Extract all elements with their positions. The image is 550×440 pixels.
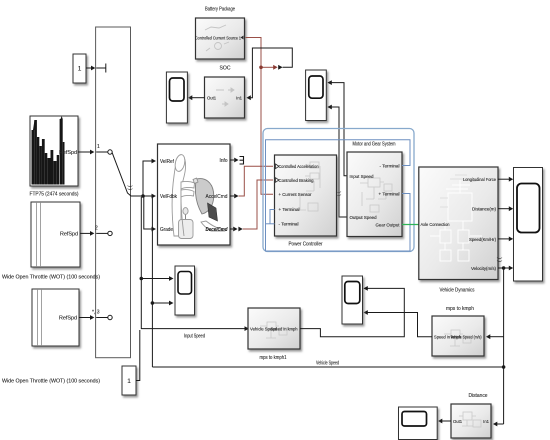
svg-text:Info: Info xyxy=(220,158,228,164)
gear shifter xyxy=(179,208,194,239)
svg-text:Distance: Distance xyxy=(469,393,488,399)
wire AccelCmd (dark red) xyxy=(230,195,234,197)
scope block (driver speeds) xyxy=(175,266,195,315)
constant block 1 (top) xyxy=(73,54,86,83)
svg-text:Gear Output: Gear Output xyxy=(376,223,401,228)
scope block (vehicle dynamics, 4 inputs) xyxy=(514,168,543,282)
svg-text:SOC: SOC xyxy=(220,66,231,72)
svg-text:( (: ( ( xyxy=(128,185,134,190)
svg-text:Motor and Gear System: Motor and Gear System xyxy=(353,142,396,148)
svg-text:Longitudinal Force: Longitudinal Force xyxy=(463,177,497,182)
node battery tap xyxy=(259,66,263,70)
annotation area (blue rounded box) xyxy=(263,129,414,252)
block Power Controller xyxy=(275,155,337,248)
wire to VelRef xyxy=(143,161,153,196)
driver figure xyxy=(172,154,194,236)
svg-text:Controlled Braking: Controlled Braking xyxy=(279,178,315,183)
source block FTP75 xyxy=(30,116,79,198)
svg-text:Vehicle Dynamics: Vehicle Dynamics xyxy=(440,288,475,294)
block Driver xyxy=(158,144,231,245)
svg-text:+ Terminal: + Terminal xyxy=(379,192,400,197)
routing rectangle xyxy=(96,27,131,358)
svg-text:( (: ( ( xyxy=(497,257,503,262)
wire mps-to-kmph output to scope input2 xyxy=(367,313,433,337)
wire Distance Out1 to scope xyxy=(441,420,451,422)
node junction VelRef/VelFdbk xyxy=(141,194,145,198)
scope block (distance) xyxy=(399,407,438,440)
wire to Distance In1 xyxy=(496,423,504,425)
svg-text:Out1: Out1 xyxy=(453,419,463,424)
steering wheel xyxy=(195,179,213,214)
wire vehicle speed feedback vertical xyxy=(151,198,153,368)
svg-text:Input Speed: Input Speed xyxy=(350,174,375,179)
svg-text:1: 1 xyxy=(78,66,82,73)
block Vehicle Dynamics xyxy=(419,167,498,294)
wire to VelFdbk xyxy=(143,195,153,197)
wire DecelCmd (dark red) xyxy=(230,228,233,230)
scope block (speed compare) xyxy=(342,276,363,324)
node scope tap 1 xyxy=(140,277,144,281)
block Motor and Gear System xyxy=(347,142,402,237)
wire motor input speed to scope input1 xyxy=(331,83,348,176)
wire WOT2 to variant circle 2 xyxy=(80,232,108,234)
block mps to kmph xyxy=(432,306,484,356)
wire to Grade xyxy=(144,197,153,229)
svg-text:Input Speed: Input Speed xyxy=(184,334,205,340)
svg-text:In1: In1 xyxy=(483,419,489,424)
svg-text:Speed(Km/Hr): Speed(Km/Hr) xyxy=(469,237,497,242)
wire WOT3 to variant circle 3 xyxy=(79,317,108,319)
wire mps-to-kmph1 output to scope input1 xyxy=(300,288,404,336)
block mps to kmph1 xyxy=(248,308,300,361)
svg-text:Speed in kmph: Speed in kmph xyxy=(271,327,299,332)
wire diagonal from circle1 to driver junction xyxy=(112,153,143,196)
svg-text:RefSpd: RefSpd xyxy=(60,232,78,238)
wire reference speed down to Input Speed line xyxy=(141,197,246,329)
svg-text:Battery Package: Battery Package xyxy=(205,7,235,13)
wire constant1 to routing rect xyxy=(86,64,106,73)
svg-text:*, 3: *, 3 xyxy=(92,310,100,316)
scope block (motor speeds) xyxy=(306,70,327,121)
pedal dark xyxy=(208,203,218,221)
wire Info to terminator xyxy=(230,159,234,161)
wire gear output (green) xyxy=(402,224,419,226)
svg-text:Controlled Current Source 1: Controlled Current Source 1 xyxy=(195,35,241,40)
wire bottom constant up xyxy=(136,330,140,381)
wire tap to scope1 input1 xyxy=(141,278,170,280)
svg-text:mps to kmph: mps to kmph xyxy=(446,306,474,312)
svg-text:Wide Open Throttle (WOT) (100: Wide Open Throttle (WOT) (100 seconds) xyxy=(2,275,100,281)
svg-text:RefSpd: RefSpd xyxy=(59,316,77,322)
svg-text:Axle Connection: Axle Connection xyxy=(421,222,451,227)
svg-text:Vehicle Speed (m/s): Vehicle Speed (m/s) xyxy=(451,335,482,340)
source block WOT2 xyxy=(2,202,100,281)
svg-text:Distance(m): Distance(m) xyxy=(472,207,497,212)
wire Vehicle Speed long line xyxy=(152,366,503,368)
svg-text:VelFdbk: VelFdbk xyxy=(160,194,177,200)
svg-text:Out1: Out1 xyxy=(207,96,217,101)
wires Vehicle Dynamics outputs to scope xyxy=(498,179,510,268)
svg-text:- Terminal: - Terminal xyxy=(380,164,400,169)
svg-text:DecelCmd: DecelCmd xyxy=(206,227,229,233)
svg-text:+ Current Sensor: + Current Sensor xyxy=(279,192,313,197)
node velocity tap xyxy=(502,266,506,270)
svg-text:Vehicle Speed: Vehicle Speed xyxy=(316,361,339,367)
scope block (SOC) xyxy=(166,72,187,123)
svg-text:RefSpd: RefSpd xyxy=(59,150,77,156)
svg-text:Power Controller: Power Controller xyxy=(289,242,323,248)
svg-text:mps to kmph1: mps to kmph1 xyxy=(260,355,287,361)
wire FTP75 to variant circle 1 xyxy=(78,151,108,153)
svg-text:2: 2 xyxy=(95,226,98,232)
wire SOC to scope xyxy=(191,97,205,99)
variant circle 2 xyxy=(108,231,112,235)
wire motor output speed to scope input2 xyxy=(331,107,348,217)
block Distance xyxy=(451,393,491,438)
block Battery Package xyxy=(195,7,245,60)
node scope tap 2 xyxy=(151,301,155,305)
variant circle 1 xyxy=(108,150,112,154)
svg-text:+ Terminal: + Terminal xyxy=(279,207,300,212)
svg-text:1: 1 xyxy=(127,378,131,385)
source block WOT3 xyxy=(2,289,100,385)
block SOC xyxy=(205,66,245,119)
wire tap to scope1 input2 xyxy=(152,302,170,304)
constant block 1 (bottom) xyxy=(122,366,136,395)
node vehicle speed tap xyxy=(502,365,506,369)
svg-text:Wide Open Throttle (WOT) (100: Wide Open Throttle (WOT) (100 seconds) xyxy=(2,379,100,385)
wire to mps-to-kmph (right) xyxy=(489,336,504,338)
svg-text:1: 1 xyxy=(97,144,100,150)
wire SOC measurement loop xyxy=(250,48,293,98)
variant circle 3 xyxy=(108,315,112,319)
svg-text:Controlled Acceleration: Controlled Acceleration xyxy=(279,164,320,169)
wire terminal minus (blue) xyxy=(266,140,411,251)
svg-text:FTP75 (2474 seconds): FTP75 (2474 seconds) xyxy=(30,192,79,198)
terminator icon xyxy=(240,157,244,165)
svg-text:VelRef: VelRef xyxy=(160,159,175,165)
svg-text:Output Speed: Output Speed xyxy=(350,215,378,220)
svg-text:In1: In1 xyxy=(236,96,242,101)
svg-text:AccelCmd: AccelCmd xyxy=(206,194,228,200)
wire velocity down xyxy=(503,268,505,424)
wire battery output (electrical, dark red) xyxy=(246,38,275,195)
svg-text:- Terminal: - Terminal xyxy=(279,222,299,227)
svg-text:Grade: Grade xyxy=(160,227,173,233)
svg-text:Velocity(m/s): Velocity(m/s) xyxy=(471,266,497,271)
